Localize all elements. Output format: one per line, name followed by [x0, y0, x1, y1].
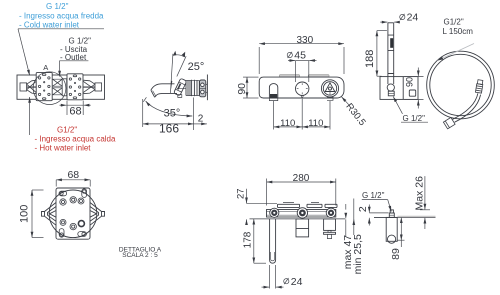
svg-text:min 25,5: min 25,5 [352, 234, 364, 274]
left valve plate [36, 73, 52, 101]
left inlet connector [20, 80, 36, 94]
detail A circle [33, 72, 66, 105]
dims 110 110 [274, 99, 330, 130]
wall line [250, 218, 346, 220]
dim 27 [247, 189, 278, 223]
end fitting [443, 117, 455, 128]
svg-text:188: 188 [364, 50, 376, 68]
svg-text:45: 45 [294, 50, 306, 62]
dim 68 (top-left view) [60, 101, 91, 116]
red hot water label [35, 126, 116, 153]
dim 89 [398, 217, 405, 247]
dim R30.5 [342, 97, 350, 106]
dim 35deg [143, 97, 192, 116]
svg-text:90: 90 [405, 77, 415, 87]
svg-text:35°: 35° [164, 108, 181, 120]
wall line [374, 216, 436, 218]
svg-text:110: 110 [280, 118, 295, 129]
svg-text:G 1/2": G 1/2" [46, 2, 69, 11]
dim 166 [143, 98, 194, 131]
dim 100 (detail) [32, 190, 44, 238]
svg-text:G 1/2": G 1/2" [403, 114, 426, 123]
concealed valve body [200, 80, 206, 97]
svg-text:90: 90 [236, 83, 248, 95]
nipple above wall [389, 213, 394, 217]
escutcheon rings [186, 80, 199, 95]
svg-text:24: 24 [291, 276, 303, 288]
spout tube [151, 84, 175, 90]
dim 280 [267, 179, 336, 206]
svg-text:- Hot water inlet: - Hot water inlet [35, 144, 92, 153]
holder block [380, 77, 418, 100]
middle outlet connector [53, 79, 67, 96]
svg-text:68: 68 [67, 169, 79, 181]
svg-text:- Cold water inlet: - Cold water inlet [19, 21, 80, 30]
svg-text:330: 330 [296, 35, 313, 46]
hose crossing to outlet [453, 93, 478, 119]
dim 188 [377, 31, 387, 77]
blue cold water label [19, 2, 104, 30]
label G 1/2 (holder) [393, 97, 402, 114]
back plate tabs [279, 75, 299, 78]
svg-text:280: 280 [293, 173, 310, 184]
svg-text:L 150cm: L 150cm [443, 27, 474, 36]
dim 178 [254, 219, 266, 263]
mixer body [259, 77, 344, 98]
spout supply tube [270, 219, 276, 263]
base nut [178, 95, 182, 98]
right fitting [475, 80, 483, 93]
svg-text:G1/2": G1/2" [444, 18, 464, 27]
plate holes [59, 189, 87, 237]
right diverter below wall [324, 219, 336, 231]
svg-text:68: 68 [69, 106, 81, 118]
svg-text:Max 26: Max 26 [414, 176, 426, 211]
right inlet connector [83, 80, 101, 94]
leader outlet [59, 60, 88, 62]
dim 330 [259, 44, 344, 74]
svg-text:24: 24 [407, 11, 419, 23]
svg-text:SCALA 2 : 5: SCALA 2 : 5 [122, 252, 158, 259]
dim Max 26 [420, 176, 430, 229]
svg-text:25°: 25° [188, 61, 205, 73]
top lugs [278, 204, 300, 207]
svg-text:89: 89 [390, 248, 402, 260]
dim 68 (detail) [56, 180, 90, 187]
centre cartridge below wall [296, 219, 309, 237]
wall line [206, 75, 208, 101]
dims max47 / min 25,5 [340, 199, 358, 238]
dim 90 (front view) [243, 77, 259, 98]
diverter knob [296, 82, 309, 98]
dim d45 [287, 52, 316, 82]
svg-text:A: A [43, 63, 48, 72]
handle lever (25 deg) [174, 78, 187, 96]
right valve plate [67, 74, 83, 100]
svg-text:166: 166 [159, 121, 179, 135]
svg-text:- Ingresso acqua calda: - Ingresso acqua calda [35, 135, 116, 144]
svg-text:G1/2": G1/2" [57, 126, 77, 135]
svg-text:27: 27 [235, 188, 246, 199]
svg-text:G 1/2": G 1/2" [362, 191, 385, 200]
hand shower handle [388, 22, 394, 24]
valve circles on rail [270, 208, 336, 218]
dim 2 (outlet) [369, 205, 388, 226]
rail [267, 210, 336, 218]
handle front [321, 80, 338, 101]
svg-text:- Ingresso acqua fredda: - Ingresso acqua fredda [19, 12, 104, 21]
body circle [49, 190, 97, 238]
leader hot water [29, 97, 31, 135]
spout front [269, 84, 277, 101]
svg-text:2: 2 [198, 114, 204, 125]
svg-text:2: 2 [357, 206, 369, 212]
dim d24 [380, 14, 405, 22]
dim 90 (holder) [405, 68, 424, 109]
outlet label [60, 37, 91, 62]
hose fitting below handle [387, 84, 394, 91]
mounting bar [17, 75, 105, 99]
left connector wings [42, 203, 57, 226]
svg-text:110: 110 [308, 118, 323, 129]
dim 25deg [170, 51, 186, 94]
wall outlet body below [386, 217, 397, 241]
svg-text:178: 178 [242, 231, 253, 248]
svg-text:100: 100 [19, 205, 31, 223]
dim 2 (spout view) [194, 123, 207, 125]
right connector wings [90, 203, 105, 226]
leader cold water [18, 28, 104, 30]
plate [56, 188, 90, 239]
dim d24 (tube) [262, 265, 289, 289]
